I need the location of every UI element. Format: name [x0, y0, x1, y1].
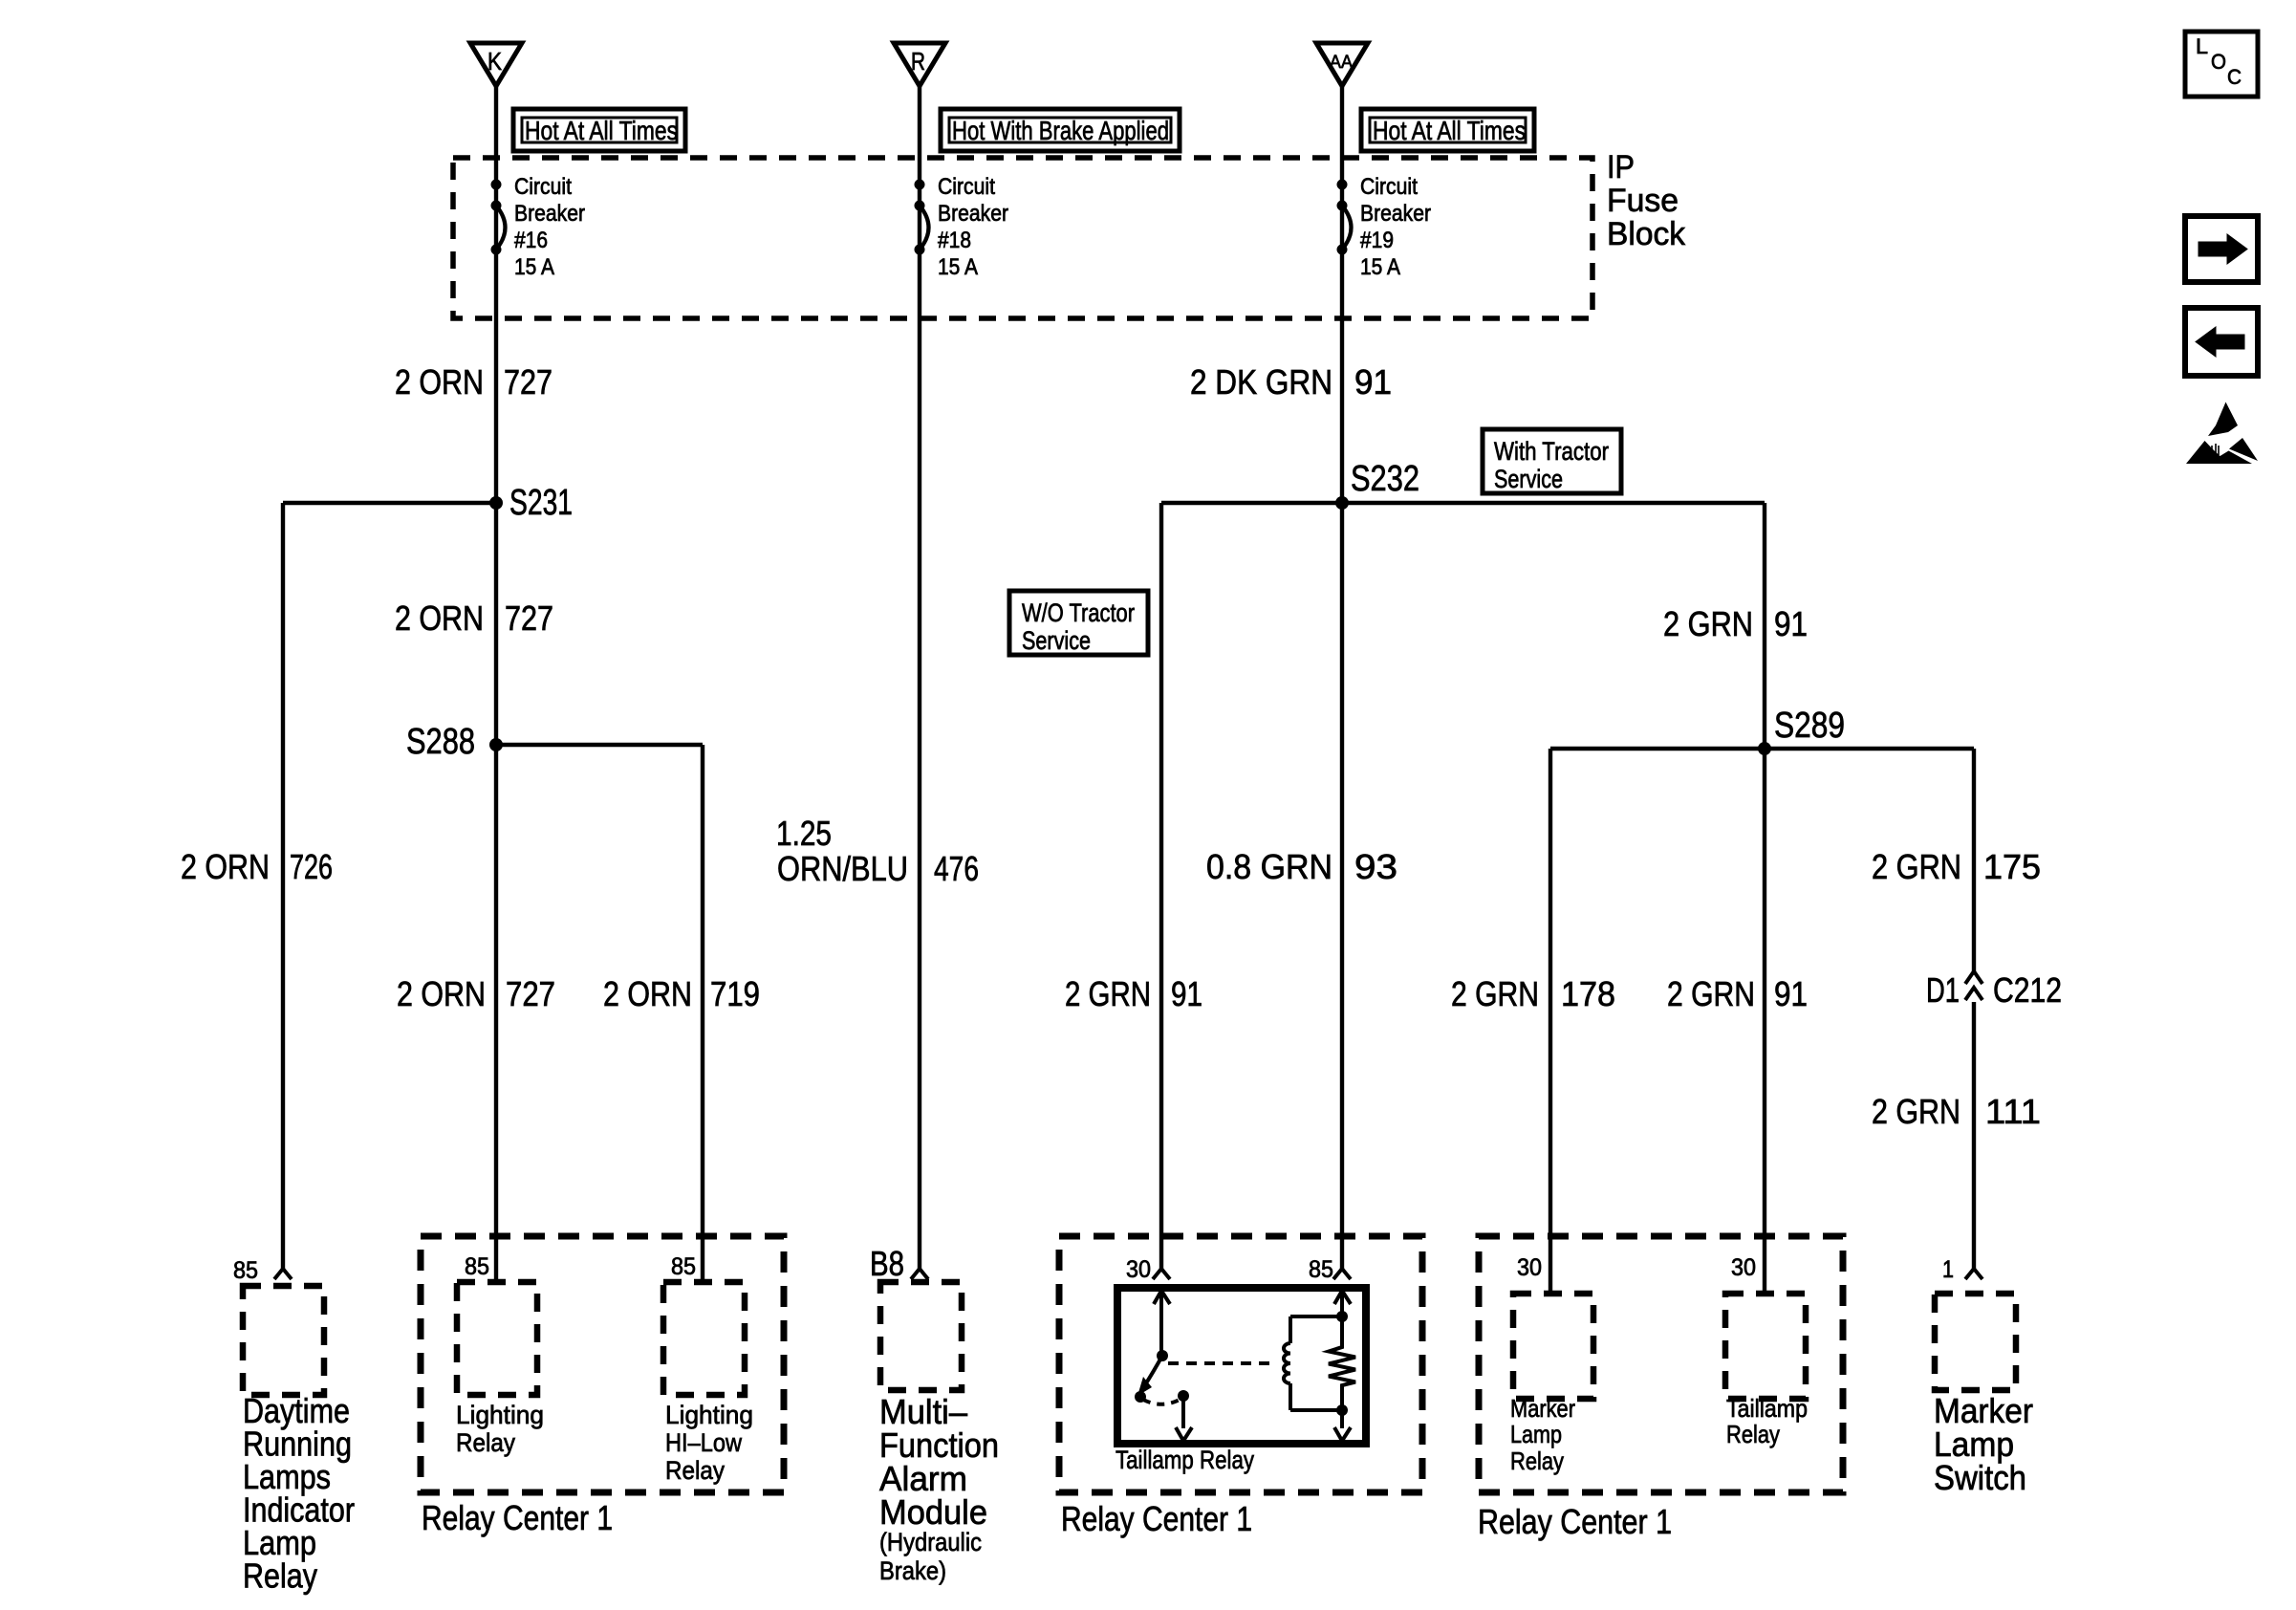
relay output down arrow — [1340, 1410, 1344, 1428]
wire to Marker Lamp Switch — [1972, 749, 1976, 971]
svg-text:30: 30 — [1731, 1254, 1756, 1281]
svg-text:Relay: Relay — [243, 1556, 317, 1596]
wire S232 branch left (W/O tractor service) — [1161, 501, 1342, 505]
svg-text:85: 85 — [1309, 1256, 1333, 1283]
svg-text:#18: #18 — [938, 228, 971, 253]
svg-text:Relay: Relay — [1510, 1447, 1564, 1475]
connector chevron at Marker Lamp Switch — [1965, 1269, 1982, 1279]
splice S231 — [489, 496, 503, 510]
svg-text:Relay Center 1: Relay Center 1 — [422, 1498, 613, 1537]
component box Lighting HI-Low Relay — [663, 1282, 745, 1395]
relay switch common dot — [1157, 1350, 1168, 1361]
connector chevron at Multi-Function Alarm Module — [911, 1269, 928, 1279]
relay NO contact dot — [1178, 1390, 1189, 1402]
svg-text:W/O Tractor: W/O Tractor — [1022, 598, 1135, 627]
svg-text:C212: C212 — [1993, 970, 2062, 1010]
svg-text:91: 91 — [1171, 974, 1202, 1013]
relay NC contact dot — [1135, 1391, 1146, 1403]
component box Multi-Function Alarm Module — [880, 1282, 962, 1390]
svg-text:2 ORN: 2 ORN — [603, 974, 692, 1013]
svg-text:Breaker: Breaker — [938, 201, 1008, 227]
Taillamp Relay solid box — [1117, 1288, 1366, 1444]
relay switch dashed throw arc — [1143, 1399, 1181, 1404]
svg-text:D1: D1 — [1926, 970, 1960, 1010]
label box Hot With Brake Applied (feed R) — [941, 109, 1180, 151]
svg-text:B8: B8 — [870, 1244, 904, 1283]
svg-text:93: 93 — [1354, 847, 1397, 886]
svg-text:0.8 GRN: 0.8 GRN — [1206, 847, 1332, 886]
svg-text:(Hydraulic: (Hydraulic — [879, 1528, 982, 1556]
svg-text:R: R — [911, 47, 925, 76]
power feed triangle K — [470, 43, 522, 86]
wire S289 down to Taillamp relay (right) — [1763, 749, 1766, 1294]
wire feed R vertical — [918, 86, 921, 1269]
svg-text:With Tractor: With Tractor — [1494, 437, 1609, 466]
svg-text:Relay: Relay — [1726, 1420, 1780, 1448]
svg-text:2 GRN: 2 GRN — [1065, 974, 1151, 1013]
svg-text:Hot With Brake Applied: Hot With Brake Applied — [952, 116, 1169, 145]
svg-text:91: 91 — [1774, 604, 1808, 643]
svg-text:Circuit: Circuit — [1360, 174, 1418, 200]
component box Lighting Relay — [457, 1282, 537, 1395]
svg-text:Fuse: Fuse — [1607, 183, 1679, 219]
LOC legend box — [2185, 32, 2258, 97]
relay internal dashed link — [1168, 1361, 1275, 1365]
svg-text:Service: Service — [1494, 465, 1563, 493]
svg-text:2 ORN: 2 ORN — [395, 362, 484, 402]
svg-text:85: 85 — [233, 1257, 258, 1284]
component box Marker Lamp Switch — [1935, 1294, 2016, 1390]
wire S288 branch right — [494, 743, 703, 747]
power feed triangle AA — [1316, 43, 1368, 86]
forward arrow box — [2185, 216, 2258, 282]
svg-text:30: 30 — [1517, 1254, 1542, 1281]
svg-text:175: 175 — [1983, 847, 2041, 886]
svg-text:727: 727 — [506, 974, 555, 1013]
back arrow box — [2185, 308, 2258, 376]
svg-text:1.25: 1.25 — [776, 814, 832, 853]
circuit breaker #19 15 A — [1337, 180, 1348, 190]
svg-text:Relay: Relay — [665, 1456, 725, 1485]
wire S289 branch right — [1765, 747, 1974, 751]
connector chevron pin 30 — [1153, 1269, 1170, 1279]
svg-text:Hot At All Times: Hot At All Times — [525, 116, 678, 145]
svg-text:Service: Service — [1022, 626, 1091, 655]
svg-text:K: K — [487, 47, 503, 76]
wire branch down to DRL relay — [281, 503, 285, 1269]
wire feed K vertical — [494, 86, 498, 1282]
splice S289 — [1758, 742, 1771, 755]
svg-text:Relay: Relay — [456, 1428, 515, 1457]
connector chevron at DRL relay — [274, 1269, 292, 1279]
connector chevron pin 85 — [1333, 1269, 1351, 1279]
svg-text:L: L — [2196, 34, 2208, 58]
svg-text:Circuit: Circuit — [514, 174, 572, 200]
svg-text:Module: Module — [879, 1492, 987, 1532]
relay NO contact down arrow — [1181, 1396, 1185, 1428]
svg-text:Breaker: Breaker — [1360, 201, 1431, 227]
relay pin 85 terminal arrow — [1340, 1294, 1344, 1316]
svg-text:2 GRN: 2 GRN — [1667, 974, 1755, 1013]
svg-text:Marker: Marker — [1510, 1394, 1575, 1423]
label box W/O Tractor Service — [1009, 591, 1148, 655]
svg-text:91: 91 — [1774, 974, 1808, 1013]
svg-text:178: 178 — [1561, 974, 1615, 1013]
svg-text:2 GRN: 2 GRN — [1451, 974, 1539, 1013]
svg-text:2 GRN: 2 GRN — [1872, 847, 1961, 886]
svg-text:Brake): Brake) — [879, 1556, 946, 1585]
relay coil — [1336, 1311, 1348, 1322]
label box Hot At All Times (feed K) — [513, 109, 685, 151]
svg-text:727: 727 — [505, 598, 553, 638]
svg-text:#19: #19 — [1360, 228, 1394, 253]
relay switch movable arm arrow — [1144, 1356, 1162, 1386]
wire branch down to Lighting HI-Low relay — [701, 745, 704, 1282]
svg-text:2 DK GRN: 2 DK GRN — [1190, 362, 1332, 402]
svg-text:85: 85 — [465, 1253, 489, 1280]
svg-text:IP: IP — [1607, 149, 1635, 185]
ESD caution symbol — [2186, 402, 2258, 465]
svg-text:S288: S288 — [406, 722, 475, 762]
svg-text:2 GRN: 2 GRN — [1872, 1092, 1960, 1131]
svg-text:15 A: 15 A — [1360, 254, 1400, 280]
svg-text:726: 726 — [290, 847, 333, 886]
splice S288 — [489, 738, 503, 751]
svg-text:2 ORN: 2 ORN — [395, 598, 484, 638]
svg-text:Lamp: Lamp — [1510, 1420, 1562, 1448]
circuit breaker #18 15 A — [915, 180, 925, 190]
component box Taillamp Relay (right) — [1725, 1294, 1806, 1399]
svg-text:Switch: Switch — [1934, 1458, 2026, 1497]
svg-text:2 ORN: 2 ORN — [181, 847, 270, 886]
svg-text:Relay Center 1: Relay Center 1 — [1478, 1502, 1672, 1541]
svg-text:Hot At All Times: Hot At All Times — [1373, 116, 1526, 145]
svg-text:Taillamp: Taillamp — [1726, 1394, 1808, 1423]
svg-text:15 A: 15 A — [938, 254, 978, 280]
svg-text:30: 30 — [1126, 1256, 1151, 1283]
splice S232 — [1335, 496, 1349, 510]
svg-text:85: 85 — [671, 1253, 696, 1280]
svg-text:1: 1 — [1942, 1256, 1954, 1283]
svg-text:727: 727 — [504, 362, 552, 402]
svg-text:Lighting: Lighting — [665, 1401, 753, 1429]
svg-text:O: O — [2211, 50, 2226, 74]
wire S232 branch right (with tractor service) — [1342, 501, 1765, 505]
dashed box Relay Center 1 (left) — [421, 1236, 784, 1492]
wire S289 branch left — [1550, 747, 1765, 751]
label box Hot At All Times (feed AA) — [1361, 109, 1534, 151]
svg-text:476: 476 — [934, 849, 979, 888]
svg-text:719: 719 — [710, 974, 760, 1013]
circuit breaker #16 15 A — [491, 180, 502, 190]
wire S231 branch left — [283, 501, 498, 505]
svg-text:Block: Block — [1607, 216, 1686, 252]
svg-text:2 GRN: 2 GRN — [1663, 604, 1753, 643]
dashed box Relay Center 1 (middle) — [1059, 1236, 1422, 1492]
svg-text:C: C — [2227, 65, 2242, 89]
power feed triangle R — [894, 43, 945, 86]
svg-text:Relay Center 1: Relay Center 1 — [1061, 1499, 1252, 1538]
component box Marker Lamp Relay — [1513, 1294, 1593, 1399]
svg-text:S231: S231 — [509, 483, 573, 523]
relay pin 30 terminal arrow — [1159, 1294, 1163, 1356]
svg-text:Taillamp Relay: Taillamp Relay — [1116, 1446, 1254, 1474]
svg-text:#16: #16 — [514, 228, 548, 253]
svg-text:Circuit: Circuit — [938, 174, 995, 200]
svg-text:91: 91 — [1354, 362, 1392, 402]
component box Daytime Running Lamps Indicator Lamp Relay — [243, 1286, 324, 1395]
svg-text:S289: S289 — [1774, 706, 1845, 746]
svg-text:2 ORN: 2 ORN — [397, 974, 486, 1013]
wire feed AA vertical — [1340, 86, 1344, 1269]
label box With Tractor Service — [1483, 429, 1621, 493]
svg-text:Breaker: Breaker — [514, 201, 585, 227]
svg-text:AA: AA — [1330, 53, 1353, 73]
dashed box Relay Center 1 (right) — [1479, 1236, 1843, 1492]
svg-text:S232: S232 — [1351, 459, 1419, 499]
relay resistor — [1329, 1316, 1355, 1410]
svg-text:Lighting: Lighting — [456, 1401, 544, 1429]
IP Fuse Block dashed boundary — [453, 158, 1592, 318]
svg-text:HI–Low: HI–Low — [665, 1428, 742, 1457]
svg-text:111: 111 — [1985, 1092, 2041, 1131]
svg-text:ORN/BLU: ORN/BLU — [777, 849, 908, 888]
svg-text:15 A: 15 A — [514, 254, 554, 280]
